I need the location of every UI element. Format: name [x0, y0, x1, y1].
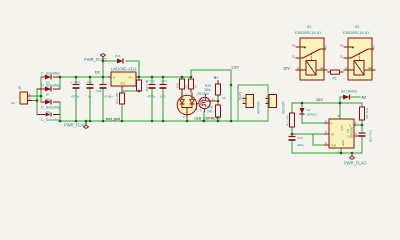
wire D15 cathode to VO — [126, 61, 139, 77]
diode D8 schottky — [41, 98, 60, 110]
svg-text:4700u: 4700u — [71, 95, 80, 99]
svg-text:FINDER-34.51: FINDER-34.51 — [295, 30, 322, 35]
relay K2 FINDER-34.51 — [292, 25, 328, 80]
wire dual diode common cathode to ground — [186, 119, 188, 122]
svg-text:OUT1: OUT1 — [239, 91, 243, 100]
svg-text:R: R — [331, 122, 333, 126]
svg-text:GND: GND — [341, 140, 345, 146]
svg-text:R31 1M: R31 1M — [365, 108, 369, 119]
wire mosfet drain to divider node — [216, 100, 218, 102]
svg-text:NE555D: NE555D — [350, 127, 354, 139]
svg-text:+: + — [146, 80, 148, 84]
wire cap C23 leads — [162, 77, 164, 121]
svg-text:D2 1N4001: D2 1N4001 — [341, 90, 357, 94]
svg-text:HEATER: HEATER — [282, 101, 286, 114]
resistor R60 — [207, 104, 221, 118]
svg-text:D15: D15 — [115, 54, 121, 58]
mosfet Q4 2N7000 — [197, 92, 217, 113]
svg-text:A1: A1 — [297, 66, 301, 70]
diode D7 schottky — [37, 84, 60, 97]
svg-text:A2: A2 — [368, 66, 372, 70]
svg-text:VCC: VCC — [340, 125, 344, 131]
wire 1.2V step-up segment — [191, 70, 231, 77]
dual schottky Q3 TO-3 can — [177, 93, 197, 120]
connector J5 AC input — [11, 86, 32, 105]
resistor R18 — [189, 79, 198, 93]
svg-text:R14 100: R14 100 — [115, 92, 119, 104]
diode D15 — [115, 54, 123, 64]
svg-text:C27: C27 — [87, 80, 93, 84]
svg-text:D_Schottky: D_Schottky — [41, 118, 60, 122]
svg-text:4700u: 4700u — [147, 95, 156, 99]
svg-text:+: + — [70, 81, 72, 85]
svg-text:12: 12 — [372, 45, 376, 49]
svg-text:A2: A2 — [320, 66, 324, 70]
svg-text:THR: THR — [331, 144, 337, 148]
svg-text:0.2u C29: 0.2u C29 — [369, 130, 373, 143]
wire 555 VCC drop — [339, 103, 341, 119]
wire AC1 from connector pin1 — [30, 95, 41, 97]
wire bridge output column bottom — [59, 102, 61, 121]
svg-text:D9: D9 — [46, 110, 50, 114]
capacitor C13 — [70, 80, 80, 99]
resistor R11 — [286, 113, 295, 127]
svg-text:D8: D8 — [46, 98, 50, 102]
resistor R14 — [115, 91, 125, 104]
svg-text:C23: C23 — [161, 79, 167, 83]
svg-text:220u: 220u — [297, 143, 304, 147]
svg-text:240: 240 — [207, 110, 213, 114]
connector P6 OUT1 — [239, 91, 261, 114]
svg-text:ADJ: ADJ — [120, 82, 126, 86]
capacitor C29 — [359, 130, 373, 143]
regulator U4 LM1085-ADJ — [108, 67, 139, 91]
svg-text:C30: C30 — [297, 136, 303, 140]
svg-text:12V: 12V — [316, 98, 323, 102]
pwr_flag bottom left — [64, 121, 89, 129]
svg-text:1N4001: 1N4001 — [307, 113, 318, 117]
wire R31 top — [361, 103, 363, 107]
resistor R31 — [360, 107, 370, 120]
svg-text:A1: A1 — [345, 66, 349, 70]
relay K3 FINDER-34.51 — [340, 25, 376, 80]
wire bottom ground rail — [60, 120, 268, 122]
svg-text:PWR_FLAG: PWR_FLAG — [84, 57, 107, 62]
wire output box left edge — [237, 85, 239, 121]
diode D1 1N4001 — [300, 108, 318, 117]
svg-text:330k: 330k — [204, 88, 211, 92]
svg-text:R11 47k: R11 47k — [286, 115, 290, 126]
capacitor C30 — [289, 136, 305, 147]
wire TR-THR tie — [313, 134, 324, 145]
svg-text:4700u: 4700u — [105, 95, 114, 99]
wire 555 gnd pin — [340, 148, 342, 153]
svg-text:12: 12 — [324, 45, 328, 49]
svg-text:DC: DC — [95, 71, 101, 75]
svg-text:U3: U3 — [346, 129, 350, 133]
svg-text:HEATER: HEATER — [257, 101, 261, 114]
wire C29 to ground — [361, 137, 363, 153]
svg-text:D7: D7 — [46, 93, 50, 97]
svg-text:test_gnd: test_gnd — [106, 117, 120, 121]
svg-text:2N7000: 2N7000 — [197, 92, 209, 96]
resistor R49 — [204, 80, 221, 97]
svg-text:K2: K2 — [307, 25, 311, 29]
svg-text:R16: R16 — [176, 83, 180, 88]
wire output box top edge — [238, 84, 268, 86]
diode D6 schottky — [41, 72, 60, 85]
svg-text:A2: A2 — [362, 96, 366, 100]
wire R14 to ground — [121, 104, 123, 121]
svg-text:1u: 1u — [88, 95, 92, 99]
wire cap C27 leads — [89, 77, 91, 121]
resistor R13 — [137, 80, 150, 92]
wire D1 branch — [302, 103, 324, 123]
svg-text:C25: C25 — [96, 89, 102, 93]
wire bridge output column top — [59, 77, 61, 89]
svg-text:LM1085-ADJ: LM1085-ADJ — [111, 67, 136, 72]
wire 555 left column — [291, 103, 293, 153]
capacitor C12 — [146, 79, 156, 99]
wire cap C12 leads — [151, 77, 153, 121]
resistor R16 — [176, 79, 189, 93]
wire divider node vertical — [217, 97, 219, 104]
svg-text:0.1: 0.1 — [194, 84, 198, 88]
wire ADJ node — [122, 90, 139, 91]
wire cap C25 leads — [102, 77, 104, 121]
timer U3 NE555D — [324, 114, 359, 154]
resistor R2 — [328, 70, 344, 81]
wire AC2 vertical rail — [36, 89, 38, 115]
wire cap C13 leads — [75, 77, 77, 121]
diode D9 schottky — [37, 110, 60, 122]
svg-text:TR: TR — [331, 133, 335, 137]
connector P7 HEATER — [266, 95, 286, 115]
svg-text:PWR_FLAG: PWR_FLAG — [344, 161, 367, 166]
svg-text:1.2V: 1.2V — [231, 66, 239, 70]
wire R31 bottom to Q pin — [354, 120, 362, 131]
svg-text:C12: C12 — [149, 79, 155, 83]
wire 1.2V drop to connectors — [230, 70, 232, 121]
svg-text:LED_CURRENT: LED_CURRENT — [195, 117, 222, 121]
svg-text:14: 14 — [340, 44, 344, 48]
wire output box right edge — [267, 85, 269, 121]
wire D2 branch — [340, 97, 360, 103]
pwr_flag top — [84, 54, 107, 63]
svg-text:D_Schottky: D_Schottky — [41, 106, 60, 110]
svg-text:14: 14 — [292, 44, 296, 48]
svg-text:PWR_FLAG: PWR_FLAG — [64, 123, 87, 128]
wire R60 to ground — [217, 118, 219, 121]
svg-text:K3: K3 — [355, 25, 359, 29]
wire 12V rail of 555 — [292, 102, 362, 104]
capacitor C27 — [87, 80, 94, 99]
svg-text:0.1: 0.1 — [185, 84, 189, 88]
wire 555 ground line — [292, 152, 362, 154]
svg-text:D_Schottky: D_Schottky — [41, 72, 60, 76]
pwr_flag at 555 ground — [344, 153, 367, 166]
svg-text:12V: 12V — [283, 67, 290, 71]
svg-text:VO: VO — [128, 76, 133, 80]
capacitor C25 — [96, 85, 113, 99]
svg-text:11: 11 — [340, 55, 343, 59]
wire TR node — [292, 133, 324, 135]
svg-text:B+: B+ — [214, 76, 219, 80]
wire pwr_flag top to D15 — [103, 61, 117, 77]
capacitor C23 — [160, 79, 167, 99]
wire R13 to VO rail — [138, 77, 140, 80]
svg-text:D1: D1 — [307, 108, 311, 112]
wire AC2 from connector pin2 — [30, 100, 37, 102]
wire mosfet source to ground — [203, 112, 205, 121]
svg-text:J5: J5 — [18, 86, 22, 90]
wire top rail DC — [60, 76, 108, 78]
svg-text:0.22: 0.22 — [160, 95, 166, 99]
wire top rail after regulator — [139, 76, 191, 78]
svg-text:11: 11 — [292, 55, 295, 59]
svg-text:D_Schottky: D_Schottky — [41, 84, 60, 88]
svg-text:K3: K3 — [222, 96, 226, 100]
svg-text:C13: C13 — [74, 80, 80, 84]
diode D2 1N4001 — [341, 90, 357, 100]
svg-text:R2: R2 — [333, 77, 337, 81]
svg-text:FINDER-34.51: FINDER-34.51 — [343, 30, 370, 35]
svg-text:VI: VI — [113, 76, 116, 80]
wire AC1 vertical rail — [40, 77, 42, 102]
